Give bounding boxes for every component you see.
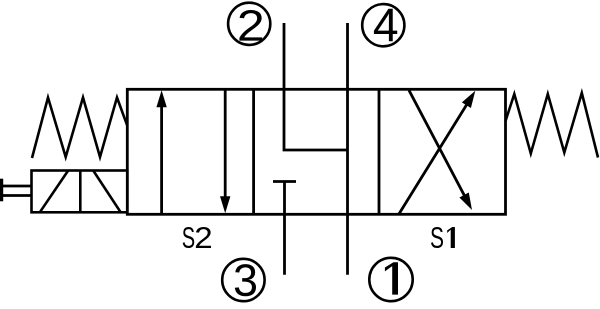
port 2 number [239,10,262,41]
flow arrow up (left box) [156,90,166,214]
solenoid right diagonal [93,171,121,213]
port 3 circle [222,259,264,301]
label S1 letter S [431,227,443,248]
port 2 circle [228,3,270,45]
solenoid S2 box [32,171,128,213]
port 3 number [235,264,256,296]
right return spring [506,93,599,158]
port 1 circle [369,258,412,301]
manual override stem upper line [3,185,32,188]
position divider right [378,89,381,214]
manual override stem lower line [3,194,32,197]
port 2 line with elbow to port 4 line (centre box) [284,23,348,150]
left return spring [32,98,127,159]
solenoid left diagonal [40,171,68,213]
label S2 letter S [183,227,194,248]
crossed flow arrow down-right (right box) [409,90,472,210]
port 4 number [374,9,397,42]
port 1 number [385,262,398,294]
crossed flow arrow up-right (right box) [399,91,475,214]
flow arrow down (left box) [220,90,230,214]
label S1 digit 1 [447,227,455,248]
position divider left [252,89,255,214]
solenoid centre divider [79,171,82,213]
port 4 circle [362,4,404,46]
port 3 blocked stub [283,182,286,275]
label S2 digit 2 [196,227,211,248]
port 4 to port 1 through line [346,23,349,275]
manual override end bar [0,179,3,202]
valve body (3-position envelope) [127,89,505,214]
port 3 block crossbar [273,180,296,183]
